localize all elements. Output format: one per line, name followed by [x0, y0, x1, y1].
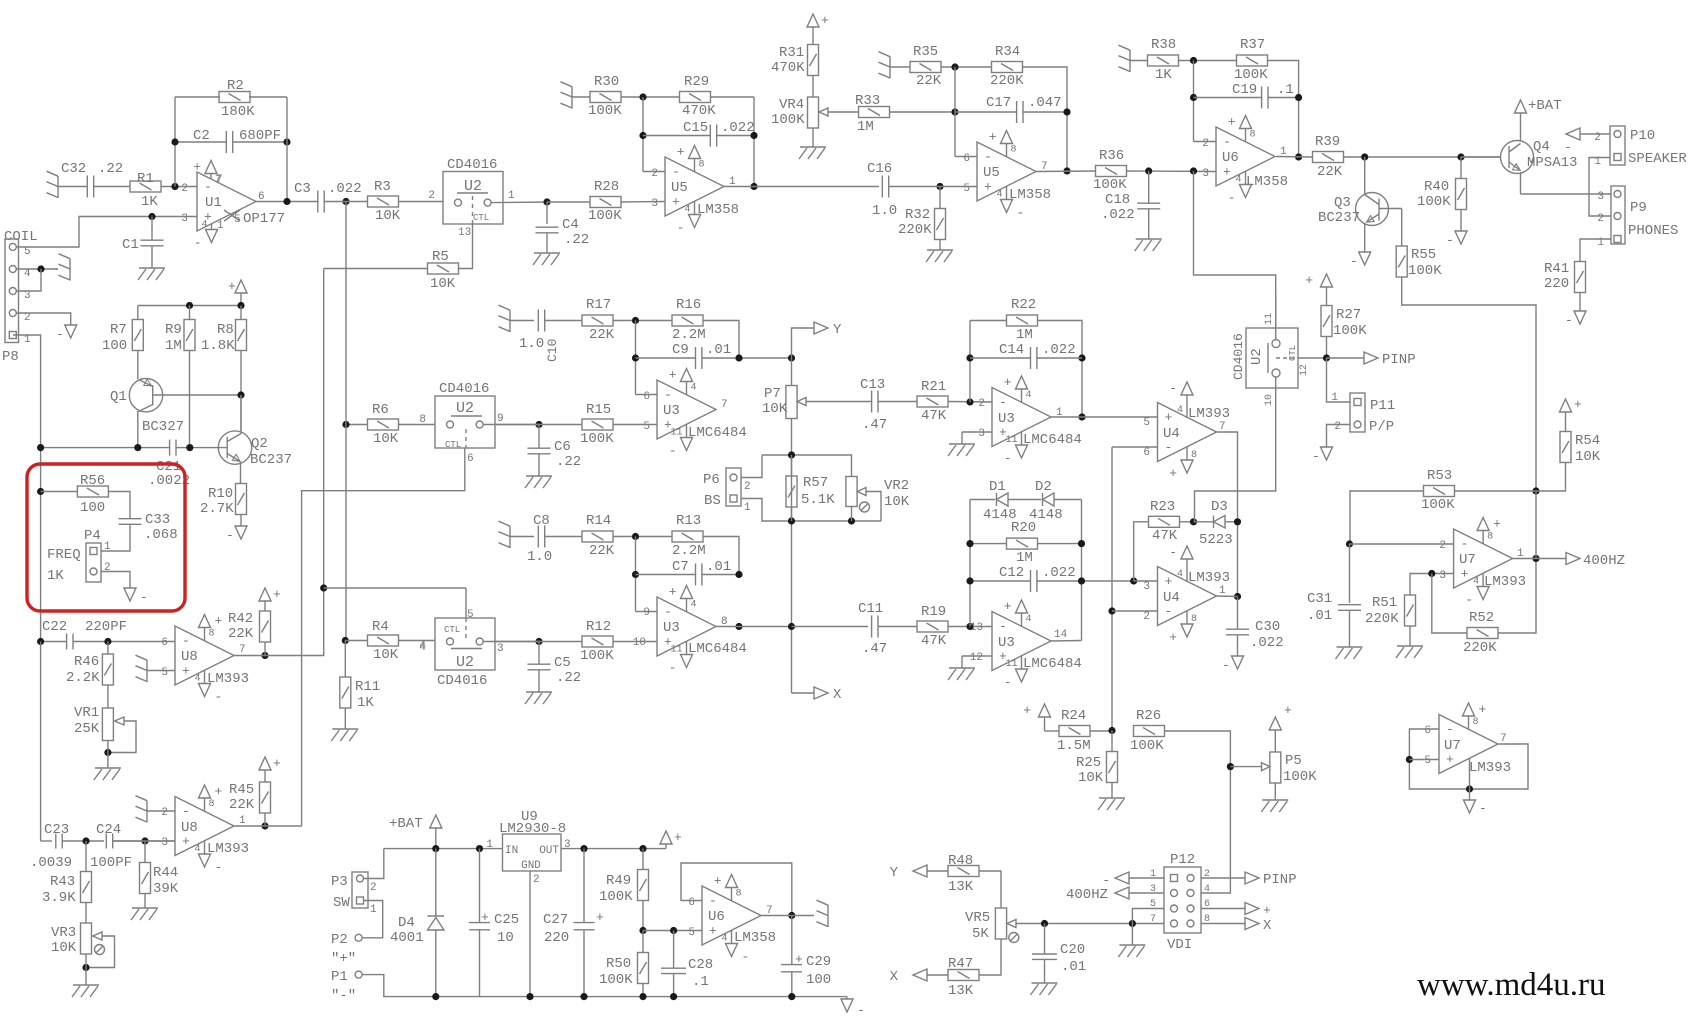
op-amp U8 LM393 (oscillator): [175, 626, 234, 685]
svg-text:U2: U2: [1249, 348, 1265, 365]
capacitor C29 100 (polarized): [791, 916, 793, 965]
svg-text:R4: R4: [372, 619, 389, 635]
svg-text:PHONES: PHONES: [1628, 223, 1678, 239]
svg-text:-: -: [1165, 440, 1173, 455]
power - at U6 pin4: [1245, 171, 1247, 184]
wire U2 pin9 out: [483, 424, 539, 426]
svg-text:C5: C5: [554, 655, 571, 671]
svg-text:+: +: [821, 13, 829, 28]
svg-text:R42: R42: [228, 611, 253, 627]
svg-text:100K: 100K: [1093, 177, 1127, 193]
svg-text:100K: 100K: [1283, 769, 1317, 785]
resistor R11 1K: [344, 641, 346, 678]
wire feedback right: [286, 97, 288, 202]
diode D1 4148: [969, 500, 971, 627]
junction U5b output: [1063, 167, 1070, 174]
junction: [82, 964, 89, 971]
svg-text:C10: C10: [545, 339, 560, 362]
svg-text:+: +: [1169, 630, 1177, 645]
resistor R46 2.2K: [107, 642, 109, 655]
power - at U3b pin11: [1021, 432, 1023, 445]
diode D2 4148: [1008, 499, 1041, 501]
resistor R32 220K: [939, 187, 941, 210]
capacitor C11 .47: [792, 626, 869, 628]
power + at U5 pin8: [694, 159, 696, 172]
svg-text:LM358: LM358: [697, 202, 739, 218]
svg-text:SPEAKER: SPEAKER: [1628, 151, 1687, 167]
svg-text:10K: 10K: [762, 401, 788, 417]
svg-text:5.1K: 5.1K: [801, 492, 835, 508]
svg-text:R12: R12: [586, 619, 611, 635]
svg-text:22K: 22K: [228, 626, 254, 642]
svg-text:+: +: [1574, 397, 1582, 412]
svg-text:VR2: VR2: [884, 478, 909, 494]
svg-text:2.2M: 2.2M: [672, 327, 706, 343]
junction: [966, 354, 973, 361]
svg-text:400HZ: 400HZ: [1583, 553, 1625, 569]
svg-text:BS: BS: [704, 493, 721, 509]
svg-text:12: 12: [1299, 364, 1310, 376]
power - at U5 pin4: [694, 201, 696, 214]
svg-text:100K: 100K: [1130, 738, 1164, 754]
svg-text:R2: R2: [227, 78, 244, 94]
svg-text:4: 4: [419, 640, 426, 652]
svg-text:6: 6: [1424, 725, 1431, 737]
svg-text:5: 5: [963, 183, 970, 195]
connector P9 PHONES: [1611, 186, 1625, 244]
svg-text:LMC6484: LMC6484: [688, 641, 747, 657]
power + at U3c pin4: [686, 599, 688, 612]
svg-text:R27: R27: [1336, 307, 1361, 323]
ground (earth) below C18: [1136, 238, 1162, 240]
junction U6b output: [788, 912, 795, 919]
VR5 wiper arrow: [1007, 920, 1016, 928]
resistor R47 13K: [927, 974, 948, 976]
svg-text:8: 8: [1191, 614, 1197, 625]
wire P1 to ground rail: [362, 975, 436, 997]
wire U4 pin6 from X comparator bus: [1112, 446, 1158, 448]
junction: [632, 533, 639, 540]
svg-text:C32: C32: [61, 161, 86, 177]
power -V at P4 pin2: [124, 588, 136, 601]
svg-text:CTL: CTL: [473, 213, 489, 223]
capacitor C23 .0039: [40, 642, 42, 842]
wire vertical C3 node to R4: [345, 202, 347, 641]
resistor R20 1M: [970, 543, 1007, 545]
svg-text:6: 6: [688, 897, 695, 909]
wire +BAT rail: [435, 828, 437, 849]
arrow X output: [792, 692, 815, 694]
wire CTL pin6 to U8b bus: [302, 448, 465, 826]
svg-text:VR1: VR1: [74, 705, 99, 721]
capacitor C28 .1: [673, 931, 675, 968]
svg-text:5: 5: [1424, 755, 1431, 767]
capacitor C17 .047: [955, 111, 1016, 113]
junction: [1145, 167, 1152, 174]
svg-text:3.9K: 3.9K: [42, 890, 76, 906]
junction: [1406, 756, 1413, 763]
IC U2 CD4016 (bottom switch): [435, 618, 495, 670]
arrow - at P12 pin1: [1115, 872, 1129, 884]
svg-text:R19: R19: [921, 604, 946, 620]
svg-text:-: -: [669, 444, 677, 459]
svg-text:R37: R37: [1240, 37, 1265, 53]
power + at U3 pin4: [686, 382, 688, 395]
junction: [186, 444, 193, 451]
svg-text:2: 2: [1597, 213, 1604, 225]
transistor Q2 BC237: [218, 431, 251, 464]
op-amp U3 LMC6484 (Y second): [992, 388, 1051, 447]
svg-text:100: 100: [102, 338, 127, 354]
svg-text:6: 6: [963, 153, 970, 165]
svg-text:R9: R9: [165, 322, 182, 338]
svg-text:www.md4u.ru: www.md4u.ru: [1417, 967, 1606, 1003]
svg-text:1: 1: [370, 904, 377, 916]
annotation red box around FREQ/P4: [27, 464, 185, 611]
svg-text:R54: R54: [1575, 433, 1600, 449]
svg-text:R43: R43: [50, 874, 75, 890]
svg-text:U6: U6: [1222, 150, 1239, 166]
resistor R50 100K: [642, 931, 644, 954]
ground (earth) below C31: [1337, 646, 1363, 648]
wire U8b output to bus: [265, 825, 302, 827]
junction: [1041, 920, 1048, 927]
svg-text:Q4: Q4: [1533, 139, 1550, 155]
svg-text:P1: P1: [331, 969, 348, 985]
svg-text:VR3: VR3: [51, 925, 76, 941]
svg-text:1M: 1M: [857, 119, 874, 135]
svg-text:+: +: [596, 910, 604, 925]
svg-text:-: -: [215, 690, 223, 705]
svg-text:-: -: [56, 327, 64, 342]
junction: [788, 451, 795, 458]
power -V below R40: [1455, 231, 1467, 244]
power - at U3d pin11: [1021, 656, 1023, 669]
ground (chassis) at P8 pin4: [69, 259, 71, 281]
capacitor C32 .22: [86, 176, 88, 198]
wire U8 out to CTL bus: [265, 269, 324, 656]
svg-text:BC237: BC237: [250, 452, 292, 468]
power -V below R41: [1574, 311, 1586, 324]
resistor R55 100K: [1396, 246, 1407, 277]
ground (chassis) at C8: [509, 526, 511, 548]
junction: [1428, 570, 1435, 577]
junction: [148, 213, 155, 220]
junction U3d output: [1051, 640, 1082, 643]
junction U3c output: [735, 623, 742, 630]
svg-text:+: +: [672, 195, 680, 210]
op-amp U8 LM393 (second half): [175, 797, 234, 856]
junction U6 pin3 node: [1190, 167, 1197, 174]
svg-text:+: +: [1305, 273, 1313, 288]
svg-text:R32: R32: [905, 207, 930, 223]
svg-text:4: 4: [691, 383, 697, 394]
svg-text:R25: R25: [1076, 755, 1101, 771]
power + above R27: [1321, 274, 1333, 287]
resistor R28 100K: [547, 201, 590, 203]
svg-text:5: 5: [1143, 417, 1150, 429]
resistor R57 5.1K: [791, 455, 793, 477]
junction U4b pin2: [1108, 607, 1115, 614]
svg-text:SW: SW: [333, 895, 350, 911]
svg-text:Y: Y: [890, 865, 899, 881]
svg-text:25K: 25K: [74, 721, 100, 737]
svg-text:11: 11: [670, 428, 682, 439]
wire top rail to VR2: [762, 455, 852, 477]
svg-text:+: +: [193, 160, 201, 175]
op-amp U5 LM358 (second half): [977, 142, 1036, 201]
svg-text:.22: .22: [564, 232, 589, 248]
junction R4 node: [342, 637, 349, 644]
svg-text:10K: 10K: [884, 494, 910, 510]
svg-text:3: 3: [1439, 570, 1446, 582]
power + at U7 pin8: [1482, 531, 1484, 544]
svg-text:P3: P3: [331, 874, 348, 890]
svg-text:6: 6: [643, 391, 650, 403]
capacitor C9 .01: [636, 357, 696, 359]
svg-text:1: 1: [239, 815, 246, 827]
junction: [543, 198, 550, 205]
svg-text:-: -: [182, 634, 190, 649]
svg-text:10K: 10K: [373, 647, 399, 663]
ground (earth) below VR1: [95, 767, 121, 769]
resistor R54 10K: [1560, 399, 1572, 412]
resistor R6 10K: [346, 424, 368, 426]
svg-text:8: 8: [699, 160, 705, 171]
ground (earth) below C5: [526, 691, 552, 693]
junction: [788, 623, 795, 630]
svg-text:100K: 100K: [1234, 67, 1268, 83]
power + at U4b pin8 (bottom): [1186, 611, 1188, 624]
svg-text:R36: R36: [1099, 148, 1124, 164]
svg-text:4: 4: [1026, 614, 1032, 625]
capacitor C5 .22: [538, 642, 540, 665]
svg-text:-: -: [226, 528, 234, 543]
svg-text:R16: R16: [676, 297, 701, 313]
resistor R21 47K: [878, 401, 917, 403]
svg-text:100: 100: [80, 500, 105, 516]
svg-text:4: 4: [1235, 175, 1241, 186]
svg-text:9: 9: [643, 607, 650, 619]
ground (earth) below R25: [1099, 797, 1125, 799]
resistor R4 10K: [345, 640, 368, 642]
svg-text:+BAT: +BAT: [1528, 98, 1562, 114]
svg-text:100K: 100K: [1417, 194, 1451, 210]
svg-text:1: 1: [24, 334, 31, 346]
svg-text:P11: P11: [1370, 398, 1395, 414]
svg-text:+: +: [1493, 517, 1501, 532]
svg-text:-: -: [984, 150, 992, 165]
wire R5 to U2 CTL pin13: [458, 224, 472, 269]
svg-text:.068: .068: [144, 527, 178, 543]
resistor R8 1.8K: [240, 306, 242, 321]
junction U7 output: [1532, 555, 1539, 562]
svg-text:-: -: [677, 221, 685, 236]
svg-text:C24: C24: [96, 822, 121, 838]
wire U1 pin3 from coil: [17, 217, 198, 248]
svg-text:-: -: [999, 395, 1007, 410]
wire R38 branch down: [1193, 61, 1195, 142]
svg-text:-: -: [1228, 191, 1236, 206]
wire P6 pin1: [741, 499, 881, 522]
svg-text:D4: D4: [398, 915, 415, 931]
power +BAT arrow: [430, 815, 442, 828]
svg-text:R55: R55: [1411, 247, 1436, 263]
resistor R33 1M: [859, 107, 890, 118]
svg-text:C2: C2: [193, 128, 210, 144]
svg-text:U3: U3: [998, 635, 1015, 651]
svg-text:220PF: 220PF: [85, 619, 127, 635]
junction: [476, 845, 483, 852]
wire P3 pin1 to P2: [362, 901, 383, 938]
diode D3 5223: [1214, 516, 1226, 529]
junction R53/R54 node: [1532, 487, 1539, 494]
svg-text:.1: .1: [692, 974, 709, 990]
svg-text:-: -: [1165, 604, 1173, 619]
svg-text:2: 2: [1202, 138, 1209, 150]
resistor R42 22K: [260, 611, 271, 642]
junction: [580, 845, 587, 852]
transistor Q1 BC327: [137, 351, 139, 380]
svg-text:U4: U4: [1163, 426, 1180, 442]
op-amp U3 LMC6484 (Y first): [636, 394, 658, 396]
op-amp U6 LM358 (half supply buffer): [702, 886, 761, 945]
svg-text:13K: 13K: [948, 879, 974, 895]
svg-text:+: +: [1165, 574, 1173, 589]
svg-text:C9: C9: [672, 342, 689, 358]
power - at U7 pin4: [1482, 573, 1484, 586]
svg-text:2: 2: [651, 168, 658, 180]
ground (chassis) at U8 pin5: [146, 660, 148, 682]
diode D4 4001: [435, 849, 437, 916]
svg-text:+: +: [1446, 752, 1454, 767]
wire U1 output: [256, 201, 318, 203]
svg-text:LMC6484: LMC6484: [1023, 432, 1082, 448]
svg-text:R39: R39: [1315, 134, 1340, 150]
svg-text:U8: U8: [181, 649, 198, 665]
svg-text:+: +: [1004, 599, 1012, 614]
svg-text:2.2K: 2.2K: [66, 670, 100, 686]
svg-text:+: +: [1461, 567, 1469, 582]
power - at U3c pin11: [686, 641, 688, 654]
svg-text:MPSA13: MPSA13: [1527, 155, 1577, 171]
wire R35/R33 branch: [954, 67, 956, 157]
svg-text:C27: C27: [543, 912, 568, 928]
op-amp U4 LM393 (X comparator): [1158, 567, 1217, 626]
VR2 wiper arrow: [857, 488, 866, 496]
arrow - at P10 pin2: [1566, 128, 1580, 140]
wire C9 branch: [635, 321, 637, 395]
svg-text:11: 11: [670, 645, 682, 656]
svg-text:-: -: [672, 165, 680, 180]
junction U7b pin4: [1466, 785, 1473, 792]
svg-text:-: -: [182, 804, 190, 819]
ground (earth) below VR4: [812, 128, 814, 147]
svg-text:2: 2: [428, 190, 435, 202]
svg-text:100K: 100K: [1421, 497, 1455, 513]
IC U2 CD4016 (rotated switch): [1246, 328, 1298, 388]
resistor R15 100K: [582, 419, 613, 430]
resistor R26 100K: [1134, 726, 1165, 737]
svg-text:R45: R45: [229, 782, 254, 798]
capacitor C33 .068: [119, 518, 142, 520]
svg-text:C29: C29: [806, 954, 831, 970]
svg-text:CTL: CTL: [445, 440, 461, 450]
junction: [632, 317, 639, 324]
svg-text:R40: R40: [1424, 179, 1449, 195]
svg-text:LMC6484: LMC6484: [1023, 656, 1082, 672]
ground rail bottom: [436, 996, 847, 998]
junction C12 to U4b pin3: [1130, 577, 1137, 584]
wire U2c pin3 out: [483, 641, 539, 643]
svg-text:2: 2: [24, 312, 31, 324]
svg-text:6: 6: [161, 637, 168, 649]
capacitor C10 1.0: [510, 320, 534, 322]
arrow 400HZ at P12 pin3: [1115, 887, 1129, 899]
junction: [1361, 153, 1368, 160]
resistor R12 100K: [582, 636, 613, 647]
capacitor C3 .022: [317, 191, 319, 213]
VR5 screw: [1009, 933, 1019, 943]
svg-text:180K: 180K: [221, 104, 255, 120]
junction U4b output: [1234, 593, 1241, 600]
resistor R38 1K: [1130, 60, 1148, 62]
svg-text:10: 10: [633, 637, 646, 649]
svg-text:C3: C3: [294, 181, 311, 197]
svg-text:+: +: [1284, 703, 1292, 718]
svg-text:10K: 10K: [373, 431, 399, 447]
junction: [670, 927, 677, 934]
ground (earth) below C20: [1032, 982, 1058, 984]
svg-text:-: -: [1564, 140, 1572, 155]
wire P8 pin4 to ground: [16, 268, 58, 270]
svg-text:-: -: [194, 236, 202, 251]
svg-text:VR5: VR5: [965, 910, 990, 926]
svg-text:U3: U3: [998, 411, 1015, 427]
ground (earth) below VR3: [73, 984, 99, 986]
svg-text:C14: C14: [999, 342, 1024, 358]
svg-text:-: -: [1479, 801, 1487, 816]
svg-text:R52: R52: [1469, 610, 1494, 626]
arrow PINP at P12 pin2: [1201, 877, 1245, 879]
svg-text:2: 2: [370, 882, 377, 894]
svg-text:4: 4: [691, 600, 697, 611]
svg-text:220K: 220K: [898, 222, 932, 238]
wire CTL branch to bottom switch: [465, 588, 467, 618]
svg-text:.22: .22: [556, 454, 581, 470]
svg-text:100K: 100K: [580, 431, 614, 447]
svg-text:8: 8: [1191, 450, 1197, 461]
svg-text:4: 4: [194, 844, 200, 855]
svg-text:VR4: VR4: [779, 97, 804, 113]
svg-text:P4: P4: [84, 528, 101, 544]
resistor R27 100K: [1326, 287, 1328, 306]
svg-text:.022: .022: [1042, 565, 1076, 581]
resistor R25 10K: [1111, 731, 1113, 753]
resistor R22 1M: [969, 321, 971, 403]
resistor R37 100K: [1237, 55, 1268, 66]
junction: [283, 138, 290, 145]
arrow 400HZ output: [1566, 553, 1580, 565]
svg-text:CD4016: CD4016: [447, 157, 497, 173]
svg-text:LM393: LM393: [207, 841, 249, 857]
svg-text:R6: R6: [372, 402, 389, 418]
svg-text:100K: 100K: [588, 103, 622, 119]
resistor R31 470K: [812, 27, 814, 45]
svg-text:1: 1: [1219, 585, 1226, 597]
svg-text:R5: R5: [432, 249, 449, 265]
ground (earth) at P12 node: [1131, 924, 1133, 946]
